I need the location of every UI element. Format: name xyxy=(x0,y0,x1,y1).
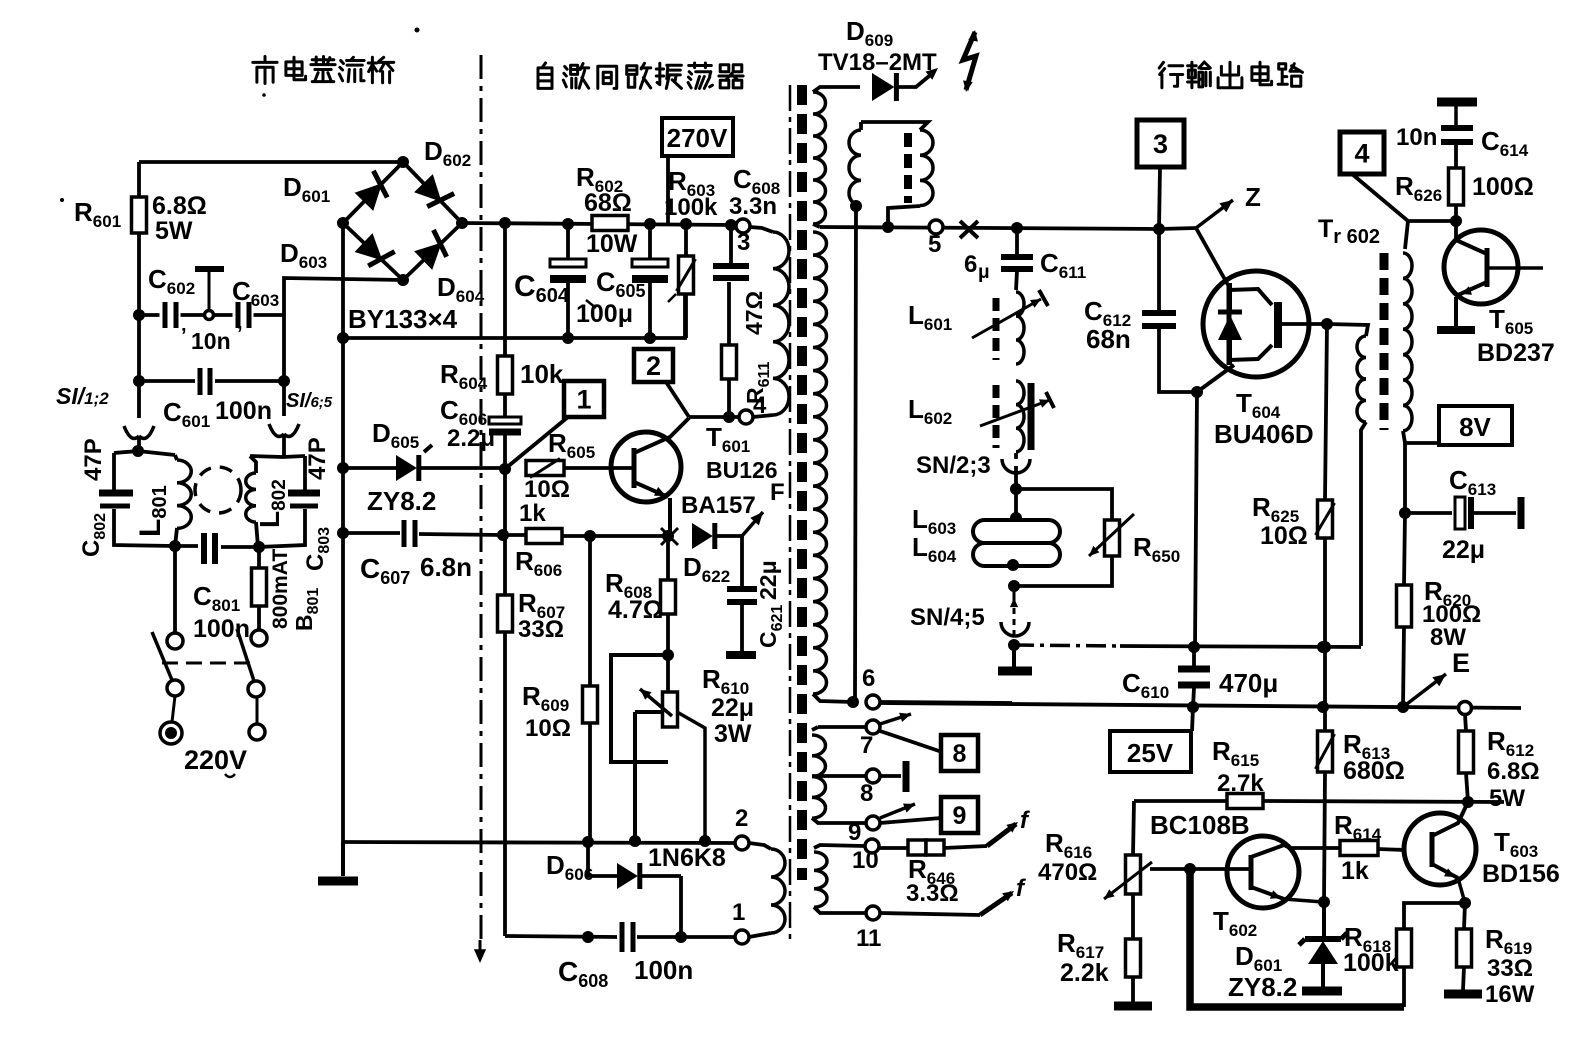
diode D606 1N6K8 xyxy=(588,842,617,876)
winding terminal 1 xyxy=(735,930,749,944)
wire left winding bottom to rail xyxy=(1317,641,1329,653)
svg-text:3.3n: 3.3n xyxy=(729,193,777,220)
svg-text:3: 3 xyxy=(1153,129,1168,159)
svg-text:47P: 47P xyxy=(304,437,331,480)
vertical through R613 xyxy=(1323,707,1327,731)
svg-text:8: 8 xyxy=(860,780,873,807)
svg-text:470Ω: 470Ω xyxy=(1038,859,1097,886)
box 4 xyxy=(1340,132,1384,174)
svg-text:11: 11 xyxy=(856,925,881,952)
wire from bridge bottom corner xyxy=(284,278,403,381)
title mains-rectifier-bridge xyxy=(253,57,277,84)
tap 8 wire xyxy=(812,774,866,778)
bridge rectifier outline xyxy=(343,162,462,280)
node C613 xyxy=(1399,507,1411,519)
resistor R606 1k xyxy=(497,529,509,541)
rail E (25V bottom) xyxy=(880,703,1521,708)
switch right pole xyxy=(251,630,267,646)
title horizontal output circuit xyxy=(1159,62,1183,87)
terminal 7 xyxy=(866,720,880,734)
svg-text:100μ: 100μ xyxy=(576,300,633,328)
transformer core dashed xyxy=(797,85,807,880)
capacitor C605 xyxy=(648,224,652,259)
switch arrow at 7 xyxy=(880,714,911,724)
svg-text:22μ: 22μ xyxy=(755,560,781,600)
svg-text:9: 9 xyxy=(848,819,861,846)
capacitor C604 xyxy=(566,224,570,259)
svg-text:5W: 5W xyxy=(1489,785,1525,812)
svg-text:10Ω: 10Ω xyxy=(524,476,570,503)
svg-text:2: 2 xyxy=(646,351,661,381)
resistor R603 (bleeder) xyxy=(684,224,688,256)
svg-text:’: ’ xyxy=(237,323,243,345)
diode D601 xyxy=(355,183,383,211)
svg-text:SI/6;5: SI/6;5 xyxy=(286,390,333,412)
wire box2 to collector junction xyxy=(666,382,689,417)
scan speck xyxy=(415,28,420,33)
diode D609 xyxy=(872,73,894,101)
winding 1-2 feedback xyxy=(749,843,771,849)
svg-text:10n: 10n xyxy=(191,328,231,354)
svg-text:3: 3 xyxy=(737,229,750,256)
aux transformer core xyxy=(904,133,912,203)
diode D605 ZY8.2 xyxy=(343,466,396,470)
wire aux-left down to node6 xyxy=(855,206,861,702)
winding 10-11 xyxy=(814,845,864,848)
wire mains top xyxy=(139,160,403,164)
svg-text:25V: 25V xyxy=(1127,738,1174,768)
svg-text:800mAT: 800mAT xyxy=(269,549,292,629)
transistor T603 xyxy=(1404,813,1476,885)
switch link dashed xyxy=(162,662,256,665)
capacitor C610 xyxy=(1178,666,1210,673)
capacitor C612 xyxy=(1157,229,1161,310)
diode D602 xyxy=(414,174,441,202)
terminal 10 xyxy=(865,839,879,853)
svg-text:100Ω: 100Ω xyxy=(1472,173,1534,201)
adjustable coil L601 xyxy=(993,298,1000,360)
transistor T602 xyxy=(1227,836,1299,908)
wire to R650 xyxy=(1016,489,1112,520)
svg-text:10n: 10n xyxy=(1396,124,1437,151)
connector SN/4;5 xyxy=(1008,580,1020,592)
svg-text:68Ω: 68Ω xyxy=(584,189,632,217)
wire oscillator ground rail xyxy=(343,842,742,843)
wire 270V rail xyxy=(462,223,736,225)
svg-text:’: ’ xyxy=(181,325,187,347)
svg-text:BU126: BU126 xyxy=(706,457,778,483)
resistor R601 xyxy=(137,162,141,197)
lightning arrow xyxy=(963,32,976,90)
wire emitter column xyxy=(1195,392,1197,647)
svg-text:BY133×4: BY133×4 xyxy=(348,304,458,334)
wire 6 to right rail xyxy=(880,702,1012,703)
box 8 xyxy=(941,735,978,771)
svg-text:5W: 5W xyxy=(155,217,193,245)
resistor R625 xyxy=(1325,324,1327,500)
svg-text:10Ω: 10Ω xyxy=(525,715,571,742)
svg-text:220V: 220V xyxy=(184,745,247,775)
wire R615 row xyxy=(1134,799,1227,803)
svg-text:BA157: BA157 xyxy=(681,492,756,519)
svg-text:4: 4 xyxy=(1354,139,1369,169)
svg-text:100n: 100n xyxy=(634,955,693,985)
svg-text:1: 1 xyxy=(576,385,591,415)
svg-text:6: 6 xyxy=(862,665,875,692)
wire to R626 node xyxy=(1408,219,1456,223)
winding 6-7-8-9 xyxy=(818,725,869,729)
svg-text:2.2k: 2.2k xyxy=(1060,959,1109,987)
title self-excited blocking oscillator xyxy=(538,63,552,88)
svg-text:6.8n: 6.8n xyxy=(420,552,472,582)
node emitter X junction xyxy=(584,530,596,542)
chassis stub of C602/C603 xyxy=(205,311,214,320)
box 9 xyxy=(941,797,978,833)
svg-text:1N6K8: 1N6K8 xyxy=(648,844,726,872)
arrow F xyxy=(742,512,763,536)
svg-text:BD237: BD237 xyxy=(1477,339,1555,367)
svg-text:Z: Z xyxy=(1245,182,1261,212)
svg-text:100k: 100k xyxy=(664,194,718,221)
node SN/4;5 bottom xyxy=(1008,639,1020,651)
wire Tr602 to 8V xyxy=(1405,441,1439,445)
rail 25V xyxy=(1014,645,1120,646)
svg-text:SN/2;3: SN/2;3 xyxy=(916,452,991,479)
svg-text:3W: 3W xyxy=(714,720,752,748)
diode D603 xyxy=(355,233,383,260)
wire R650 bottom xyxy=(1014,556,1112,586)
switch arrow at 9 xyxy=(880,804,915,818)
svg-text:BD156: BD156 xyxy=(1482,860,1560,888)
capacitor C614 with ground xyxy=(1437,98,1477,107)
svg-text:33Ω: 33Ω xyxy=(1487,955,1533,982)
svg-text:2: 2 xyxy=(735,805,748,832)
svg-text:8: 8 xyxy=(953,740,967,768)
svg-text:7: 7 xyxy=(860,732,873,759)
resistor R614 xyxy=(1340,841,1378,856)
svg-text:22μ: 22μ xyxy=(711,694,754,722)
tank L802 with C803 xyxy=(250,456,305,457)
svg-text:8V: 8V xyxy=(1459,412,1491,442)
switch arrow f lower xyxy=(880,913,980,915)
adjustable coil L602 xyxy=(993,385,1000,448)
connector SI/6;5 xyxy=(282,381,286,416)
fuse B801 xyxy=(257,547,261,568)
capacitor C801 xyxy=(169,540,181,552)
svg-text:6.8Ω: 6.8Ω xyxy=(1487,758,1540,785)
terminal 6 xyxy=(866,695,880,709)
resistor R611 xyxy=(727,379,731,417)
resistor R608 4.7 xyxy=(666,536,670,580)
resistor R612 xyxy=(1465,714,1466,731)
diode D622 BA157 xyxy=(692,523,713,549)
resistor R617 xyxy=(1131,894,1135,939)
resistor R604 xyxy=(503,223,507,356)
svg-text:μ: μ xyxy=(978,262,990,283)
zener diode D601 ZY8.2 xyxy=(1322,902,1326,941)
svg-text:BU406D: BU406D xyxy=(1214,419,1314,449)
aux transformer winding left xyxy=(859,122,863,130)
wire feedback bottom xyxy=(1190,869,1404,1007)
wire 9 to box 9 xyxy=(880,818,941,823)
svg-text:1k: 1k xyxy=(519,500,546,527)
resistor R620 xyxy=(1404,443,1405,585)
svg-text:10k: 10k xyxy=(520,359,564,389)
wire C602/C603 line xyxy=(139,313,284,317)
svg-text:F: F xyxy=(770,479,785,506)
transistor T601 xyxy=(611,432,681,502)
wire base T604 xyxy=(1196,228,1228,285)
svg-text:680Ω: 680Ω xyxy=(1343,757,1405,785)
resistor R607 xyxy=(503,469,507,595)
box 1 xyxy=(564,381,604,417)
svg-text:3.3Ω: 3.3Ω xyxy=(906,880,959,907)
coil L603 L604 xyxy=(1010,512,1022,524)
box 270V xyxy=(662,118,733,156)
svg-text:ZY8.2: ZY8.2 xyxy=(1228,972,1297,1002)
rheostat R616 xyxy=(1133,801,1134,855)
svg-text:10: 10 xyxy=(852,847,879,874)
wire R613 column xyxy=(1323,647,1327,707)
svg-text:68n: 68n xyxy=(1086,324,1131,354)
resistor R618 xyxy=(1404,903,1465,929)
wire rectifier bottom rail xyxy=(343,295,685,338)
svg-text:6: 6 xyxy=(964,251,977,278)
secondary winding lower xyxy=(813,232,827,694)
svg-text:9: 9 xyxy=(953,802,967,830)
node under box3 xyxy=(1153,223,1165,235)
switch arrow f upper xyxy=(987,824,1016,846)
svg-text:2.7k: 2.7k xyxy=(1217,770,1264,797)
box 3 xyxy=(1137,120,1184,167)
Tr602 secondary winding left xyxy=(1327,324,1368,336)
wire T602 collector to R614 row xyxy=(1284,845,1340,848)
svg-text:22μ: 22μ xyxy=(1442,536,1485,564)
winding terminal 2 xyxy=(735,836,749,850)
resistor R613 xyxy=(1318,731,1333,772)
wire 7 to box 8 xyxy=(880,731,942,752)
transistor T605 xyxy=(1444,230,1518,304)
svg-text:6.8Ω: 6.8Ω xyxy=(152,192,207,220)
svg-text:4.7Ω: 4.7Ω xyxy=(608,596,663,624)
ground symbol oscillator xyxy=(341,842,345,876)
wire C607 6.8n xyxy=(343,531,400,535)
tap 8 stub bar xyxy=(880,774,901,778)
svg-text:16W: 16W xyxy=(1485,981,1535,1008)
resistor R646 xyxy=(879,846,908,850)
svg-text:E: E xyxy=(1452,648,1470,678)
box 25V xyxy=(1192,707,1193,731)
node C601 right xyxy=(278,375,290,387)
ground SN/4;5 xyxy=(1012,645,1016,668)
aux transformer winding right xyxy=(861,122,928,130)
svg-text:8W: 8W xyxy=(1430,624,1466,651)
svg-text:1k: 1k xyxy=(1341,857,1369,885)
svg-text:100k: 100k xyxy=(1343,949,1399,977)
svg-text:5: 5 xyxy=(928,231,941,258)
coupling dashed circle xyxy=(195,467,241,513)
svg-text:BC108B: BC108B xyxy=(1150,810,1250,840)
resistor R619 xyxy=(1464,903,1465,929)
wire negative vertical xyxy=(341,223,345,842)
node5 wire xyxy=(820,227,1159,229)
resistor R609 xyxy=(588,536,592,686)
switch left pole xyxy=(173,546,177,632)
diode D604 xyxy=(414,242,442,269)
wire box1 to node xyxy=(506,417,568,468)
node L603 top xyxy=(1010,483,1022,495)
svg-text:ZY8.2: ZY8.2 xyxy=(367,486,436,516)
tank L801 with C802 xyxy=(132,445,144,457)
svg-text:1: 1 xyxy=(732,899,745,926)
Tr602 primary winding right xyxy=(1405,221,1408,249)
transformer Tr602 core xyxy=(1380,253,1389,430)
node T603 emitter xyxy=(1459,897,1471,909)
svg-text:33Ω: 33Ω xyxy=(518,616,564,643)
node C611 xyxy=(1011,222,1023,234)
capacitor C608 3.3n xyxy=(713,263,749,269)
winding 3-4 primary xyxy=(750,227,773,232)
capacitor C602 xyxy=(160,303,180,327)
rheostat R650 xyxy=(1105,520,1120,556)
connector SI/1;2 xyxy=(137,315,141,381)
node R605 junction xyxy=(499,463,511,475)
terminal 11 xyxy=(866,906,880,920)
node C601 left xyxy=(133,375,145,387)
T604 collector wire xyxy=(1281,322,1327,326)
capacitor C613 xyxy=(1405,511,1452,515)
svg-text:SN/4;5: SN/4;5 xyxy=(910,604,985,631)
winding terminal 3 xyxy=(736,219,750,233)
svg-text:2.2μ: 2.2μ xyxy=(447,425,495,452)
resistor R605 xyxy=(526,461,564,476)
terminal 5 xyxy=(929,220,943,234)
svg-text:10W: 10W xyxy=(586,230,638,258)
capacitor C608 100n xyxy=(505,936,617,937)
capacitor C606 xyxy=(489,417,521,424)
svg-text:470μ: 470μ xyxy=(1219,668,1278,698)
section separator dash-dot line xyxy=(480,55,483,940)
secondary winding upper xyxy=(813,87,860,92)
capacitor C601 xyxy=(139,379,195,383)
X break xyxy=(960,221,978,238)
capacitor C603 xyxy=(233,303,253,327)
box 2 xyxy=(634,349,673,382)
T604 emitter wire xyxy=(1197,365,1234,392)
svg-text:100n: 100n xyxy=(215,397,272,425)
svg-text:270V: 270V xyxy=(667,123,728,153)
resistor R626 xyxy=(1449,168,1464,205)
svg-text:TV18–2MT: TV18–2MT xyxy=(818,49,937,76)
wire box4 diagonal xyxy=(1352,174,1408,221)
svg-text:47P: 47P xyxy=(80,438,107,481)
capacitor C621 xyxy=(740,536,744,587)
potentiometer R610 block xyxy=(662,649,674,661)
svg-text:10Ω: 10Ω xyxy=(1260,522,1308,550)
arrow E xyxy=(1403,674,1446,707)
terminal 9 xyxy=(866,816,880,830)
capacitor C611 6u xyxy=(1015,228,1019,254)
resistor R602 xyxy=(592,216,628,231)
box 8V xyxy=(1439,406,1512,445)
terminal 8 xyxy=(866,769,880,783)
arrow Z xyxy=(1159,228,1196,229)
connector SN/2;3 xyxy=(1014,453,1018,459)
wire to winding terminal 4 xyxy=(689,415,746,419)
transistor T604 damper xyxy=(1203,271,1309,377)
svg-text:47Ω: 47Ω xyxy=(741,291,767,335)
